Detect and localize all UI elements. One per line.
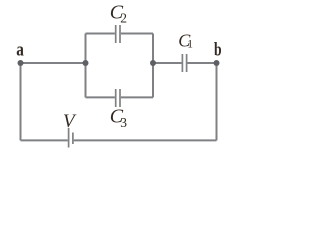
svg-text:3: 3	[120, 115, 127, 130]
svg-text:a: a	[16, 39, 24, 60]
svg-text:b: b	[214, 39, 222, 60]
svg-text:2: 2	[120, 11, 127, 26]
svg-text:V: V	[63, 111, 77, 132]
svg-text:1: 1	[187, 39, 193, 51]
